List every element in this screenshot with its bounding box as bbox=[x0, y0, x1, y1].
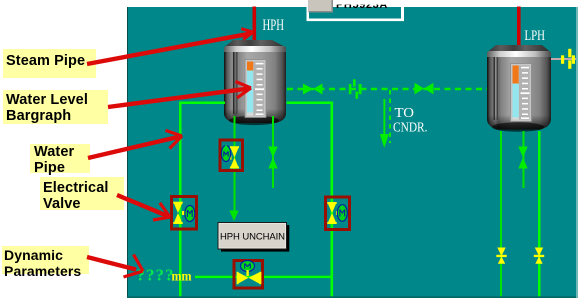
steam pipe (red) into LPH bbox=[517, 7, 521, 47]
electrical valve A yellow gate bbox=[228, 146, 240, 168]
tank HPH bbox=[224, 40, 286, 125]
electrical valve C motor bbox=[337, 205, 347, 222]
vent tick on HPH dome bbox=[250, 41, 252, 48]
HPH UNCHAIN button bbox=[218, 223, 289, 252]
water pipe right loop (horizontal) bbox=[287, 102, 333, 105]
bargraph LPH orange top segment bbox=[513, 66, 519, 84]
electrical valve D yellow gate (horizontal) bbox=[237, 272, 262, 284]
red arrow: Dynamic Parameters bbox=[87, 255, 143, 278]
svg-text:PH5923A: PH5923A bbox=[336, 0, 388, 11]
water level bargraph HPH frame bbox=[245, 60, 266, 118]
water pipe left loop (vertical) bbox=[179, 102, 182, 299]
label Steam Pipe bbox=[3, 49, 96, 78]
bargraph LPH cyan level bar bbox=[513, 84, 519, 118]
steam pipe (red) into HPH bbox=[253, 7, 257, 42]
label Water Level Bargraph bbox=[3, 90, 108, 124]
steam trap symbol right of LPH bbox=[551, 49, 577, 69]
top info window (clipped at screen top) bbox=[307, 0, 405, 21]
tank HPH dome bbox=[224, 40, 286, 48]
tank HPH weld line bbox=[233, 52, 234, 114]
button in top info window bbox=[309, 0, 334, 13]
vent tick on LPH dome bbox=[514, 46, 516, 53]
tank LPH bbox=[487, 45, 551, 132]
red arrow: Steam Pipe bbox=[87, 29, 253, 64]
bargraph HPH cyan level bar bbox=[247, 71, 253, 113]
bargraph LPH tick marks bbox=[521, 67, 530, 119]
tank LPH body bbox=[487, 57, 551, 130]
electrical valve B motor bbox=[185, 206, 195, 222]
label Dynamic Parameters bbox=[2, 246, 89, 274]
tank LPH rim highlight bbox=[487, 51, 551, 58]
electrical valve A motor bbox=[221, 145, 230, 162]
drain arrow line to condenser bbox=[380, 99, 389, 148]
check valve on LPH mid drain bbox=[518, 147, 527, 169]
valve V1 on extraction line bbox=[303, 84, 323, 95]
svg-text:TO: TO bbox=[395, 106, 415, 121]
electrical valve C yellow gate bbox=[327, 202, 340, 224]
teal panel bottom edge bbox=[127, 296, 578, 298]
steam trap symbol on extraction line bbox=[349, 79, 362, 98]
red arrow: Electrical Valve bbox=[117, 195, 170, 220]
water pipe right loop (vertical) bbox=[331, 102, 334, 299]
manual valve on LPH left drain bbox=[496, 248, 506, 264]
electrical valve C box (right loop) bbox=[326, 197, 350, 230]
manual valve on LPH right drain bbox=[534, 248, 544, 264]
label Electrical Valve bbox=[40, 177, 124, 210]
valve V2 on extraction line bbox=[415, 83, 434, 95]
HPH right drain pipe bbox=[272, 116, 274, 188]
HPH left drain pipe bbox=[234, 116, 236, 212]
arrow into HPH UNCHAIN button bbox=[229, 211, 238, 222]
red arrow: Water Level Bargraph bbox=[108, 82, 251, 108]
dashed extraction steam line HPH to LPH bbox=[287, 88, 487, 90]
teal HMI panel background bbox=[127, 7, 578, 298]
electrical valve D motor bbox=[241, 261, 255, 277]
bargraph HPH tick marks bbox=[255, 63, 264, 115]
LPH mid drain pipe bbox=[523, 131, 525, 188]
electrical valve B yellow gate bbox=[173, 202, 186, 224]
tank HPH rim highlight bbox=[224, 46, 286, 53]
electrical valve A box (HPH left drain) bbox=[220, 140, 243, 171]
bottom water pipe bbox=[195, 276, 332, 278]
tank LPH weld line bbox=[494, 57, 495, 120]
svg-text:mm: mm bbox=[172, 269, 193, 284]
LPH left drain pipe bbox=[500, 131, 502, 298]
svg-text:CNDR.: CNDR. bbox=[393, 121, 428, 136]
tank HPH body bbox=[224, 52, 286, 123]
dashed branch to condenser bbox=[389, 90, 391, 143]
electrical valve B box (left loop) bbox=[172, 197, 197, 230]
red arrow: Water Pipe bbox=[88, 130, 182, 158]
electrical valve D box (bottom pipe) bbox=[234, 261, 263, 289]
LPH right drain pipe bbox=[538, 131, 541, 298]
check valve on HPH right drain bbox=[268, 147, 277, 169]
svg-text:HPH UNCHAIN: HPH UNCHAIN bbox=[220, 232, 285, 243]
label Water Pipe bbox=[30, 144, 90, 173]
water pipe left loop (horizontal) bbox=[179, 102, 225, 105]
screen right edge bbox=[576, 7, 578, 298]
water level bargraph LPH frame bbox=[511, 64, 532, 122]
svg-text:LPH: LPH bbox=[525, 28, 546, 44]
tank LPH dome bbox=[487, 45, 551, 53]
svg-text:HPH: HPH bbox=[263, 17, 285, 34]
bargraph HPH orange top segment bbox=[247, 62, 253, 71]
